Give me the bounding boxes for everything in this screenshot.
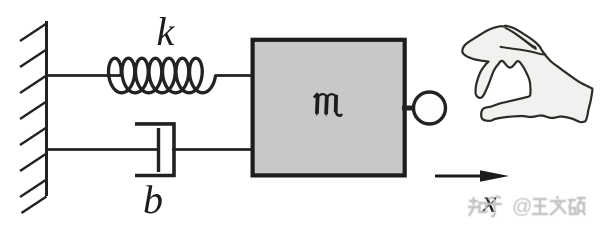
damper b cylinder — [135, 124, 174, 176]
watermark zhihu — [468, 196, 502, 216]
knob stub — [402, 106, 416, 111]
shuo — [568, 199, 576, 201]
hu — [488, 196, 501, 199]
wen — [556, 196, 558, 199]
zhi — [469, 200, 478, 202]
label m — [314, 93, 342, 116]
mass m block — [253, 40, 405, 176]
wire damper left rod — [45, 148, 158, 151]
wang — [533, 198, 547, 200]
arrow x direction — [435, 170, 509, 181]
spring k coil — [109, 58, 216, 93]
hand middle finger line — [506, 28, 536, 47]
hand finger crease line — [501, 47, 546, 55]
damper b piston plate — [157, 128, 160, 172]
knob circle — [414, 92, 446, 124]
svg-text:b: b — [143, 177, 163, 222]
wire spring right rod — [215, 74, 254, 77]
svg-text:@: @ — [512, 196, 532, 218]
svg-text:k: k — [157, 9, 176, 54]
hand ring finger line — [513, 32, 536, 49]
wire damper right rod — [172, 148, 253, 151]
wire spring left rod — [45, 74, 122, 77]
wall — [20, 21, 47, 213]
hand — [462, 26, 592, 123]
